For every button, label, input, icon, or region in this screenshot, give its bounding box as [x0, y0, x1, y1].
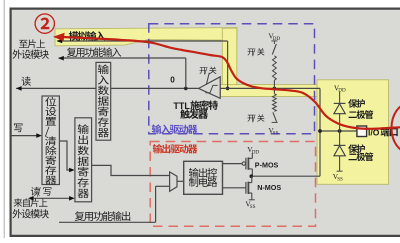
upper protection diode D1: [339, 92, 341, 104]
I/O pad square: [357, 126, 367, 137]
label: protection diode (lower): [348, 144, 357, 153]
output control box U2: [184, 161, 223, 194]
node: mos drain junction: [250, 174, 254, 178]
output data register box: [75, 118, 92, 202]
transistor Q2 N-MOS: [245, 182, 247, 194]
wire: read/write to output data register: [33, 197, 71, 199]
node: analog branch junction: [226, 87, 230, 91]
svg-text:SS: SS: [273, 130, 279, 136]
wire: alternate function output: [59, 221, 156, 223]
node: pull resistor junction: [273, 87, 277, 91]
label: to on-chip peripherals line2: [12, 50, 21, 59]
lower protection diode D2: [339, 131, 341, 145]
wire: schmitt output to input data register: [111, 87, 199, 89]
node: schmitt output junction: [184, 87, 188, 91]
left window edge line: [4, 0, 5, 238]
svg-text:DD: DD: [252, 149, 260, 155]
wire: read line to input data register: [16, 87, 96, 89]
input data register box: [96, 62, 111, 140]
wire: bit set/clear to output data register: [59, 141, 70, 170]
pull-up switch: [271, 40, 277, 42]
wire: output control to N-MOS gate: [222, 187, 245, 189]
wire: mux to output control: [177, 180, 184, 182]
wire: schmitt input line: [220, 87, 320, 89]
node: diode branch junction: [338, 129, 342, 133]
label: from on-chip peripherals line2: [12, 209, 21, 218]
pull-up resistor R1: [273, 56, 277, 80]
pull-down switch: [273, 112, 277, 122]
wire: output data register to mux: [92, 165, 170, 175]
label: output driver: [153, 144, 162, 153]
wire: pad vertical line: [319, 88, 321, 176]
input driver dashed box: [149, 24, 315, 134]
node: pad line junction: [318, 129, 322, 133]
label: read: [22, 77, 31, 86]
label: protection diode (upper): [348, 99, 357, 108]
label: circled 2 annotation: [35, 13, 56, 34]
svg-text:DD: DD: [338, 88, 346, 94]
wire: alternate function input branch: [185, 58, 187, 88]
switch on schmitt trigger: [206, 73, 209, 85]
bit set/clear register box: [42, 96, 59, 185]
highlight: pad-to-schmitt band: [221, 85, 328, 97]
svg-text:0: 0: [170, 75, 175, 84]
svg-text:P-MOS: P-MOS: [255, 160, 279, 169]
pull-down resistor R2: [273, 88, 275, 93]
label: alternate function output: [75, 211, 85, 221]
output driver dashed box: [150, 142, 315, 227]
wire: write arrow into bit set/clear register: [11, 135, 37, 137]
label: from on-chip peripherals line1: [14, 198, 23, 207]
wire: output control to P-MOS gate: [222, 163, 242, 165]
wire: mos drain line: [251, 175, 320, 177]
label: analog input: [69, 31, 79, 40]
highlight: protection diode box: [317, 80, 389, 185]
label: TTL schmitt trigger line2: [180, 109, 190, 118]
mux M1: [170, 172, 177, 191]
svg-text:SS: SS: [250, 204, 256, 210]
red annotation ellipse on I/O port: [392, 104, 400, 152]
svg-text:SS: SS: [337, 176, 343, 182]
label: input driver: [152, 124, 162, 134]
wire: analog input branch: [227, 41, 229, 88]
wire: I/O pad line: [320, 130, 357, 132]
label: on/off (schmitt): [200, 67, 207, 74]
label: alternate function input: [67, 48, 76, 57]
red annotation curve: [62, 37, 400, 129]
highlight: analog input band: [55, 28, 237, 46]
svg-text:N-MOS: N-MOS: [257, 183, 281, 192]
label: on/off (pull-down): [248, 115, 255, 122]
schmitt trigger U1: [199, 77, 221, 99]
label: to on-chip peripherals line1: [19, 40, 28, 48]
label: on/off (pull-up): [248, 49, 255, 56]
label: read/write: [31, 187, 40, 196]
label: write: [14, 124, 23, 133]
highlight: analog path vertical strip: [222, 28, 237, 96]
